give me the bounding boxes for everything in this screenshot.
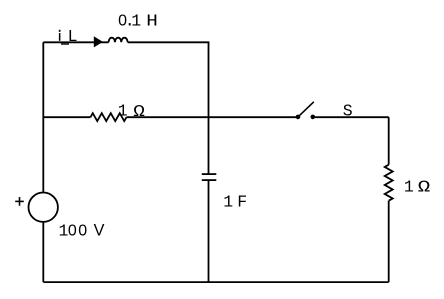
svg-text:L: L (68, 27, 78, 46)
wire left vertical upper (42, 42, 44, 192)
voltage source V1 circle (29, 193, 58, 222)
svg-text:1: 1 (404, 178, 414, 197)
svg-text:H: H (146, 13, 158, 31)
wire middle vertical lower (capacitor to bottom) (208, 180, 210, 282)
wire middle horizontal after switch (315, 116, 389, 118)
svg-text:Ω: Ω (418, 177, 430, 196)
switch S left dot (296, 115, 301, 120)
resistor R1 1 ohm (middle) (91, 113, 127, 121)
wire middle vertical upper (top to capacitor) (208, 42, 210, 174)
label i_L : underscore (61, 43, 69, 44)
wire bottom horizontal (43, 281, 388, 283)
current arrow i_L (94, 36, 103, 47)
wire right vertical upper (388, 117, 390, 165)
label i_L : i dot (59, 30, 61, 32)
wire middle horizontal right of resistor to switch (127, 116, 297, 118)
switch S blade (298, 102, 314, 117)
wire middle horizontal left (43, 116, 90, 118)
svg-text:00: 00 (68, 223, 87, 240)
wire top horizontal right segment (128, 41, 210, 43)
wire top horizontal left segment (43, 41, 108, 43)
svg-text:.1: .1 (125, 12, 141, 31)
svg-text:Ω: Ω (133, 103, 145, 121)
svg-text:1: 1 (118, 102, 128, 121)
svg-text:V: V (94, 222, 105, 240)
plus sign (15, 200, 24, 202)
capacitor C 1 F bottom plate (202, 179, 217, 181)
wire right vertical lower (388, 201, 390, 282)
switch S right dot (311, 115, 316, 120)
svg-text:1F: 1F (223, 192, 247, 211)
capacitor C 1 F top plate (202, 173, 217, 175)
resistor R2 1 ohm (right) (385, 165, 393, 201)
inductor L 0.1 H (109, 38, 128, 43)
label i_L : i stem (59, 33, 61, 41)
wire left vertical lower (42, 222, 44, 282)
